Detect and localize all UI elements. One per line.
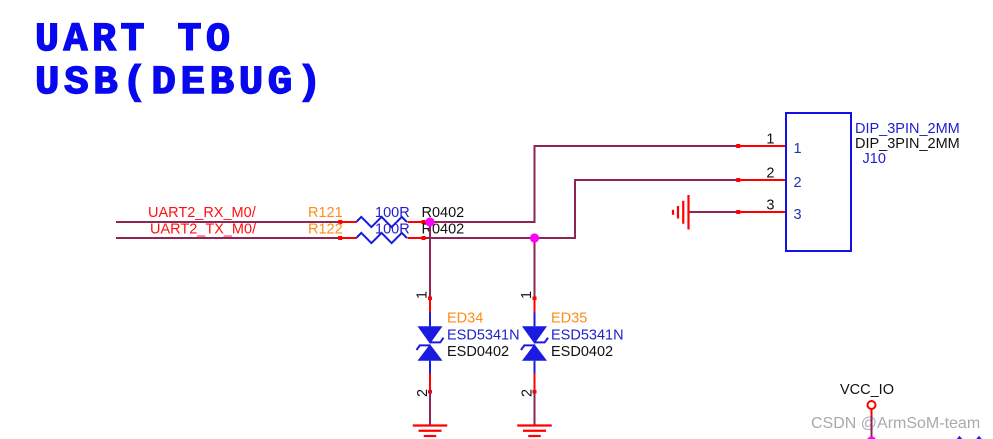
svg-text:VCC_IO: VCC_IO <box>840 382 894 398</box>
svg-text:UART2_TX_M0/: UART2_TX_M0/ <box>150 222 257 238</box>
wire TX between resistor and corner <box>423 237 577 239</box>
resistor R121 pins <box>340 221 357 223</box>
partial symbol tip (bottom right) <box>957 436 962 439</box>
svg-text:1: 1 <box>414 291 430 299</box>
svg-text:1: 1 <box>794 141 802 157</box>
svg-text:100R: 100R <box>375 205 410 221</box>
svg-text:CSDN @ArmSoM-team: CSDN @ArmSoM-team <box>811 415 980 432</box>
svg-text:ESD5341N: ESD5341N <box>551 328 624 344</box>
junction TX/ED35 <box>530 233 539 242</box>
wire RX between resistor and corner <box>423 221 536 223</box>
svg-text:2: 2 <box>519 389 535 397</box>
svg-text:ESD5341N: ESD5341N <box>447 328 520 344</box>
ground at connector pin 3 (rotated) <box>673 195 689 230</box>
diode ED35 <box>521 297 548 394</box>
title UART TO USB(DEBUG) <box>35 18 326 106</box>
svg-text:DIP_3PIN_2MM: DIP_3PIN_2MM <box>855 136 960 152</box>
svg-text:ED34: ED34 <box>447 311 483 327</box>
connector J10 body <box>786 113 851 251</box>
connector J10 pin stubs <box>738 146 786 212</box>
svg-text:2: 2 <box>794 175 802 191</box>
wire VCC_IO vertical <box>871 417 873 439</box>
junction RX/ED34 <box>425 217 434 226</box>
svg-text:USB(DEBUG): USB(DEBUG) <box>35 61 326 106</box>
resistor R122 <box>356 233 407 243</box>
ground ED35 <box>517 426 552 437</box>
resistor R121 <box>356 217 407 227</box>
svg-text:3: 3 <box>766 198 774 214</box>
wire pin2 horizontal <box>574 179 738 181</box>
partial symbol tip (bottom right) <box>976 436 981 439</box>
wire ED34 to ground <box>429 391 431 426</box>
resistor R122 pins <box>340 237 357 239</box>
svg-text:2: 2 <box>766 166 774 182</box>
svg-text:J10: J10 <box>863 151 886 167</box>
svg-text:3: 3 <box>794 207 802 223</box>
wire RX vertical riser <box>534 147 536 221</box>
svg-text:DIP_3PIN_2MM: DIP_3PIN_2MM <box>855 121 960 137</box>
svg-text:ESD0402: ESD0402 <box>551 344 613 360</box>
svg-text:R122: R122 <box>308 222 343 238</box>
svg-text:100R: 100R <box>375 222 410 238</box>
power symbol VCC_IO <box>868 401 876 409</box>
svg-text:ED35: ED35 <box>551 311 587 327</box>
wire pin3 horizontal <box>689 211 738 213</box>
svg-text:ESD0402: ESD0402 <box>447 344 509 360</box>
wire TX horizontal left <box>116 237 341 239</box>
wire ED35 vertical <box>534 238 536 298</box>
wire ED34 vertical <box>429 222 431 298</box>
wire ED35 to ground <box>534 391 536 426</box>
svg-text:2: 2 <box>415 389 431 397</box>
ground ED34 <box>413 426 448 437</box>
diode ED34 <box>417 297 444 394</box>
svg-text:1: 1 <box>766 132 774 148</box>
junction VCC_IO (bottom edge) <box>867 436 876 439</box>
wire pin1 horizontal <box>534 145 739 147</box>
wire RX horizontal left <box>116 221 341 223</box>
svg-text:UART2_RX_M0/: UART2_RX_M0/ <box>148 205 257 221</box>
svg-text:1: 1 <box>519 291 535 299</box>
svg-text:R121: R121 <box>308 205 343 221</box>
svg-text:UART TO: UART TO <box>35 18 235 63</box>
wire TX vertical riser <box>574 181 576 237</box>
